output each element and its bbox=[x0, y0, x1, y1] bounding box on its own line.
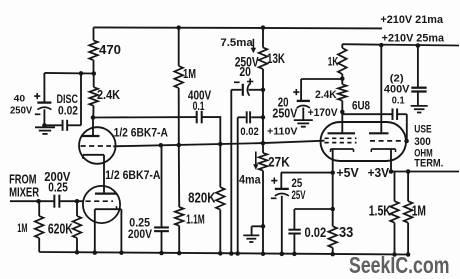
svg-text:1/2 6BK7-A: 1/2 6BK7-A bbox=[105, 168, 161, 182]
svg-text:0.25: 0.25 bbox=[48, 179, 68, 194]
svg-text:0.02: 0.02 bbox=[240, 126, 258, 138]
svg-text:40: 40 bbox=[14, 94, 25, 104]
svg-text:0.1: 0.1 bbox=[193, 99, 205, 113]
svg-text:2.4K: 2.4K bbox=[315, 89, 337, 101]
svg-text:+210V 25ma: +210V 25ma bbox=[382, 33, 444, 45]
svg-text:200V: 200V bbox=[128, 228, 152, 241]
svg-text:300: 300 bbox=[414, 136, 431, 148]
svg-text:1.1M: 1.1M bbox=[186, 212, 205, 227]
svg-text:+3V: +3V bbox=[368, 165, 390, 180]
svg-text:1M: 1M bbox=[17, 221, 27, 235]
svg-text:7.5ma: 7.5ma bbox=[220, 37, 253, 49]
svg-text:+170V: +170V bbox=[308, 107, 339, 119]
svg-text:6U8: 6U8 bbox=[352, 99, 370, 113]
svg-text:4ma: 4ma bbox=[239, 173, 261, 187]
svg-text:+110V: +110V bbox=[267, 127, 298, 138]
svg-text:+5V: +5V bbox=[336, 165, 359, 180]
svg-text:470: 470 bbox=[99, 42, 121, 57]
svg-text:400V: 400V bbox=[384, 84, 410, 96]
svg-text:SeekIC.com: SeekIC.com bbox=[349, 252, 450, 278]
svg-text:25V: 25V bbox=[292, 188, 307, 202]
svg-text:0.02: 0.02 bbox=[58, 103, 78, 117]
svg-text:1M: 1M bbox=[412, 204, 426, 220]
svg-text:620K: 620K bbox=[48, 222, 73, 238]
svg-text:MIXER: MIXER bbox=[9, 185, 39, 200]
svg-text:250V: 250V bbox=[10, 106, 32, 117]
svg-text:1M: 1M bbox=[183, 67, 196, 81]
svg-text:33: 33 bbox=[339, 225, 353, 241]
svg-text:+210V 21ma: +210V 21ma bbox=[380, 14, 443, 26]
svg-text:27K: 27K bbox=[268, 155, 290, 170]
svg-text:1K: 1K bbox=[328, 57, 339, 69]
svg-text:0.1: 0.1 bbox=[392, 95, 405, 106]
svg-text:1.5K: 1.5K bbox=[369, 204, 392, 220]
svg-text:2.4K: 2.4K bbox=[97, 88, 120, 102]
svg-text:250V: 250V bbox=[272, 107, 298, 121]
svg-text:1/2 6BK7-A: 1/2 6BK7-A bbox=[114, 126, 169, 140]
svg-text:USE: USE bbox=[414, 124, 431, 136]
svg-text:TERM.: TERM. bbox=[414, 158, 443, 170]
svg-text:13K: 13K bbox=[267, 51, 285, 66]
svg-text:820K: 820K bbox=[188, 190, 216, 206]
svg-text:0.02: 0.02 bbox=[305, 225, 327, 240]
svg-text:20: 20 bbox=[239, 65, 251, 79]
